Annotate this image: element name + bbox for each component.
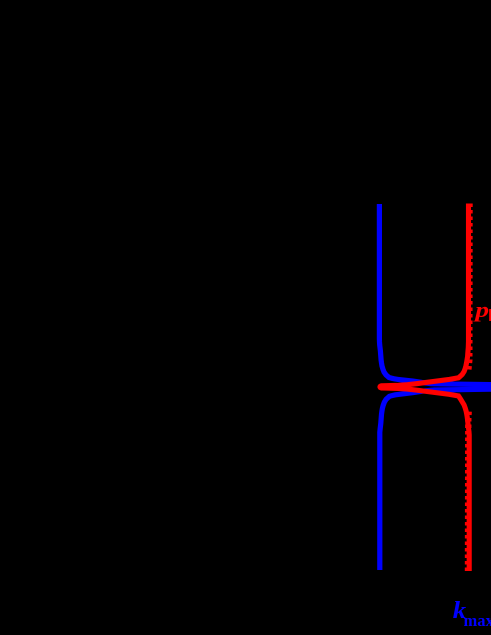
blue curve lower branch (380, 389, 491, 570)
svg-text:p: p (473, 298, 489, 322)
label sliver of cut-off subscript after p (489, 309, 491, 321)
label k (blue, bottom right) (453, 597, 467, 624)
blue curve upper branch (379, 204, 491, 385)
red curve lower vertical dashed texture (465, 409, 472, 571)
red curve upper branch (381, 204, 469, 386)
label p (red, right edge) (473, 298, 489, 322)
red curve upper vertical dashed texture (468, 204, 469, 373)
red curve lower branch (381, 388, 470, 571)
red curve left end cap (377, 384, 384, 391)
svg-text:max: max (464, 611, 491, 630)
